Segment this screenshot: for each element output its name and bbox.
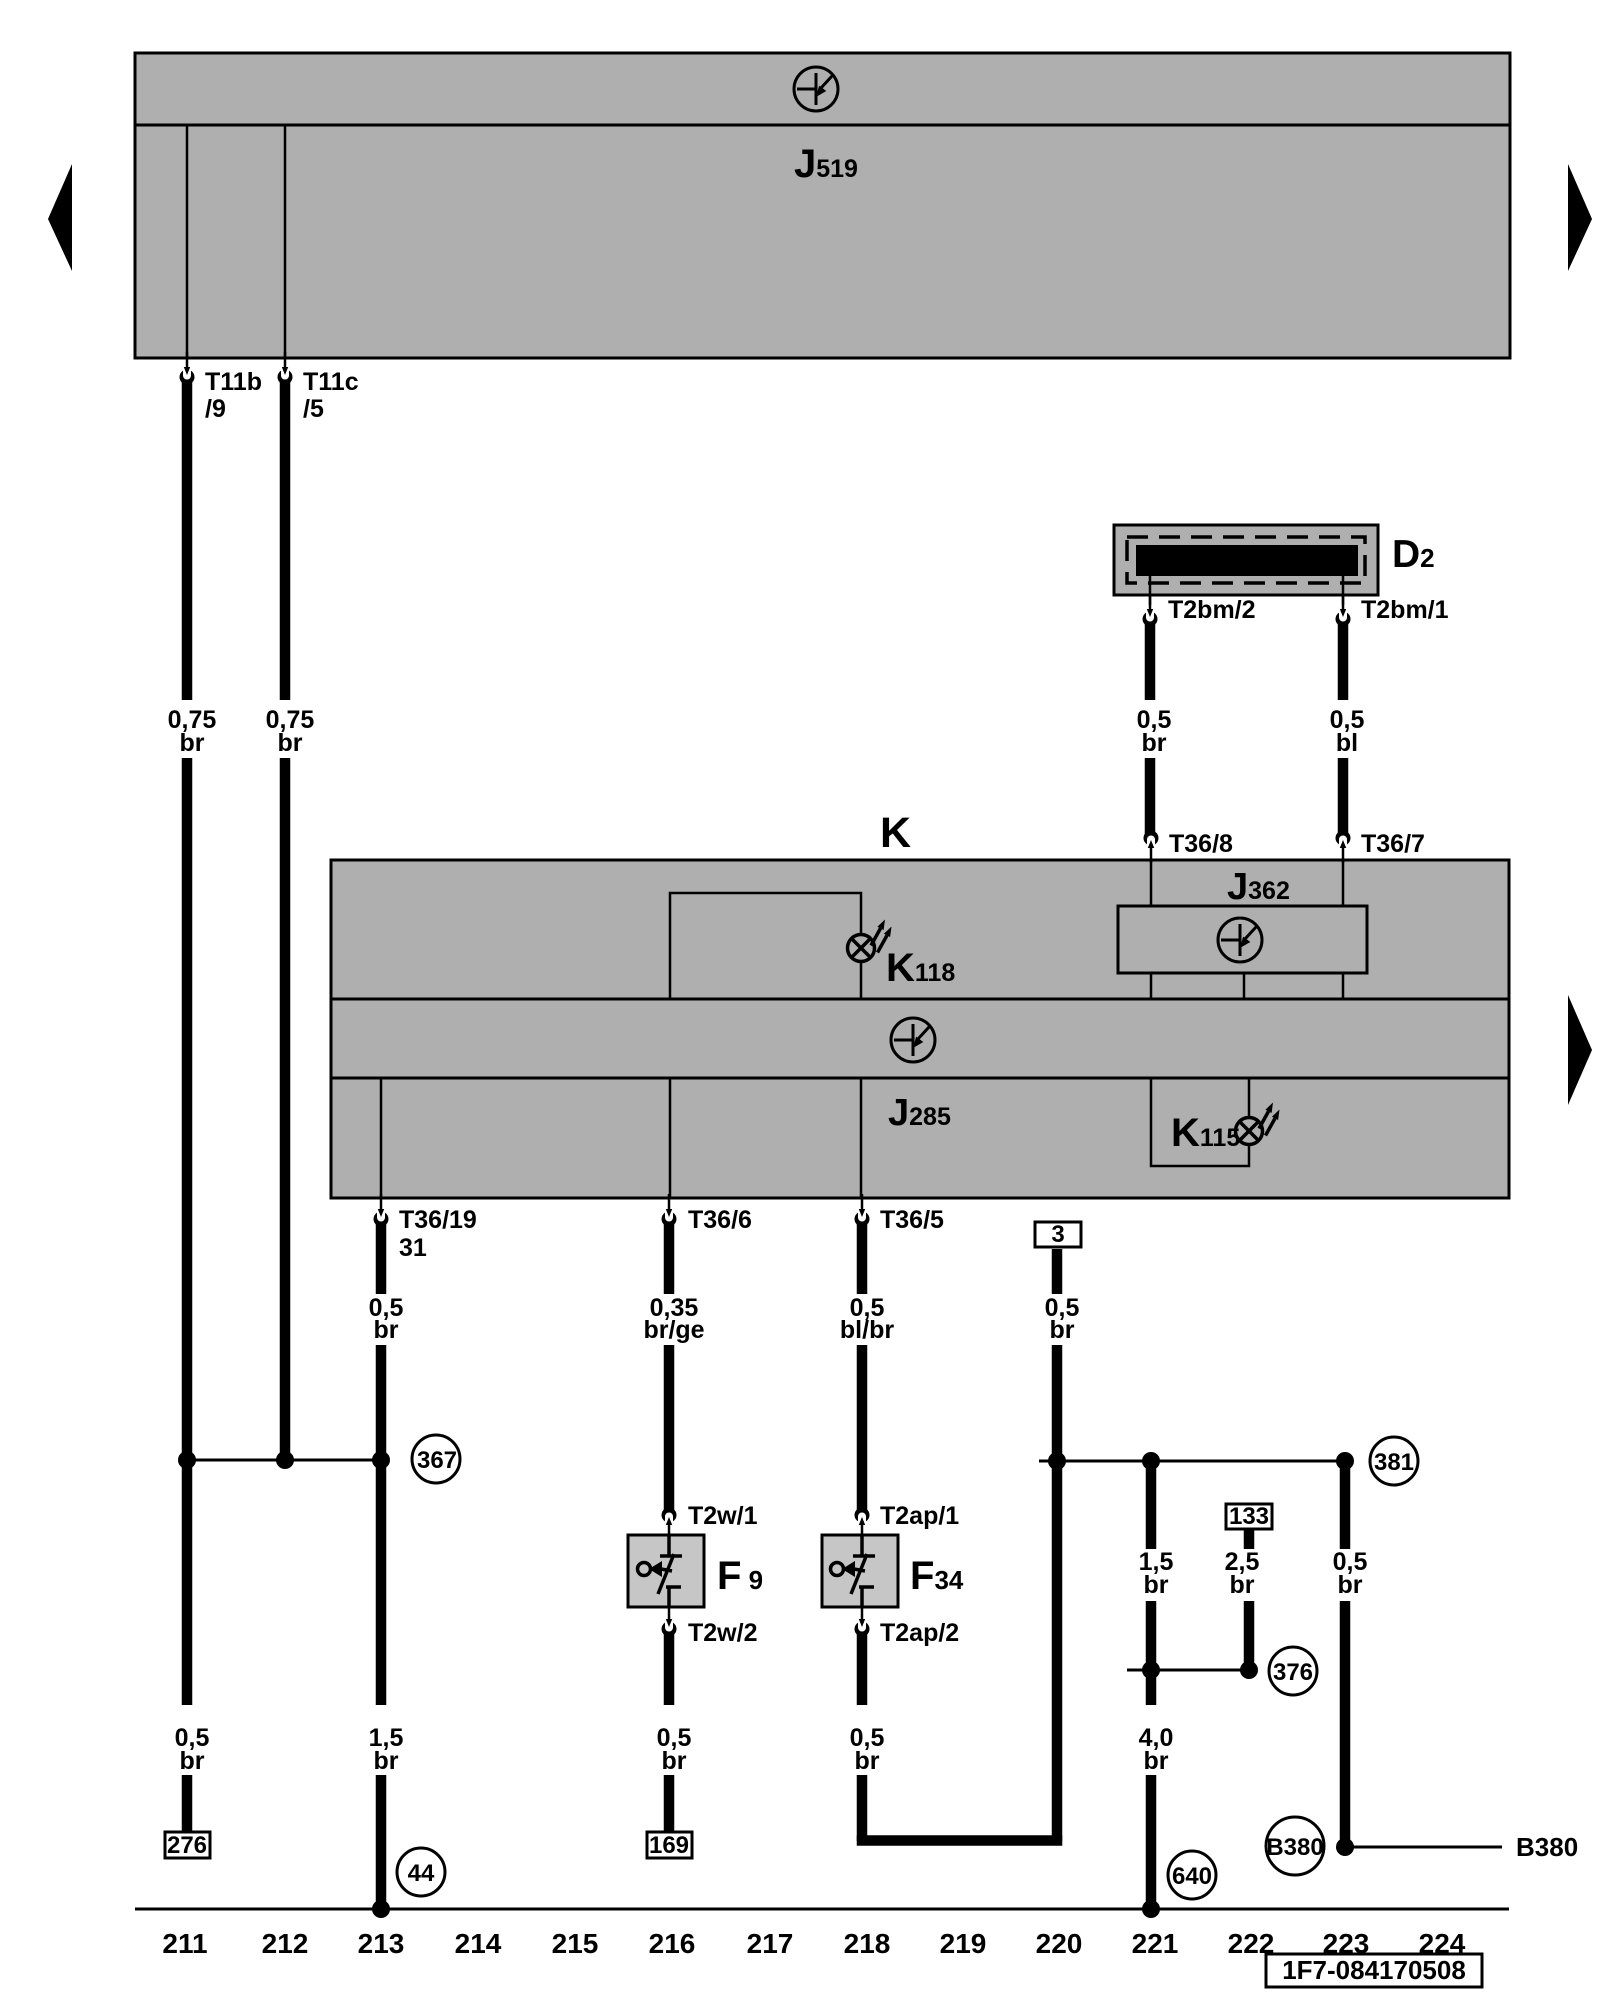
- svg-text:br: br: [374, 1747, 399, 1775]
- svg-text:376: 376: [1273, 1659, 1313, 1686]
- svg-text:220: 220: [1036, 1928, 1083, 1959]
- svg-text:3: 3: [1051, 1221, 1064, 1248]
- svg-text:381: 381: [1374, 1449, 1414, 1476]
- svg-text:T11b: T11b: [205, 368, 262, 396]
- svg-text:br: br: [1338, 1571, 1363, 1599]
- svg-text:T2w/1: T2w/1: [688, 1502, 758, 1530]
- svg-text:B380: B380: [1516, 1832, 1578, 1862]
- svg-text:276: 276: [167, 1832, 207, 1859]
- svg-text:B380: B380: [1266, 1834, 1323, 1861]
- svg-text:br: br: [278, 729, 303, 757]
- svg-text:169: 169: [649, 1832, 689, 1859]
- svg-text:213: 213: [358, 1928, 405, 1959]
- svg-text:/5: /5: [303, 395, 324, 423]
- svg-text:216: 216: [649, 1928, 696, 1959]
- svg-text:218: 218: [844, 1928, 891, 1959]
- svg-text:br: br: [1142, 729, 1167, 757]
- svg-text:bl/br: bl/br: [840, 1316, 894, 1344]
- svg-text:K: K: [880, 809, 911, 857]
- svg-text:217: 217: [747, 1928, 794, 1959]
- svg-text:T2w/2: T2w/2: [688, 1619, 757, 1647]
- svg-text:215: 215: [552, 1928, 599, 1959]
- svg-text:214: 214: [455, 1928, 502, 1959]
- svg-text:T2ap/2: T2ap/2: [880, 1619, 959, 1647]
- svg-text:T36/8: T36/8: [1169, 830, 1233, 858]
- svg-text:221: 221: [1132, 1928, 1179, 1959]
- svg-text:bl: bl: [1336, 729, 1358, 757]
- svg-text:T36/7: T36/7: [1361, 830, 1425, 858]
- svg-text:br: br: [180, 729, 205, 757]
- svg-text:br: br: [374, 1316, 399, 1344]
- svg-text:T36/19: T36/19: [399, 1206, 477, 1234]
- svg-text:219: 219: [940, 1928, 987, 1959]
- svg-text:br: br: [1144, 1571, 1169, 1599]
- svg-text:211: 211: [162, 1928, 207, 1959]
- svg-text:367: 367: [417, 1447, 457, 1474]
- svg-text:133: 133: [1229, 1503, 1269, 1530]
- svg-text:br: br: [1144, 1747, 1169, 1775]
- svg-text:T36/5: T36/5: [880, 1206, 944, 1234]
- svg-text:br: br: [180, 1747, 205, 1775]
- svg-text:T11c: T11c: [303, 368, 359, 396]
- svg-text:br: br: [1050, 1316, 1075, 1344]
- svg-text:br: br: [1230, 1571, 1255, 1599]
- svg-text:44: 44: [408, 1860, 435, 1887]
- svg-text:br/ge: br/ge: [643, 1316, 704, 1344]
- svg-text:31: 31: [399, 1234, 427, 1262]
- svg-text:212: 212: [262, 1928, 309, 1959]
- svg-text:T36/6: T36/6: [688, 1206, 752, 1234]
- svg-text:1F7-084170508: 1F7-084170508: [1282, 1955, 1466, 1985]
- svg-text:br: br: [662, 1747, 687, 1775]
- svg-text:640: 640: [1172, 1863, 1212, 1890]
- svg-text:br: br: [855, 1747, 880, 1775]
- svg-text:/9: /9: [205, 395, 226, 423]
- svg-text:T2ap/1: T2ap/1: [880, 1502, 959, 1530]
- svg-text:T2bm/2: T2bm/2: [1168, 596, 1256, 624]
- svg-text:T2bm/1: T2bm/1: [1361, 596, 1449, 624]
